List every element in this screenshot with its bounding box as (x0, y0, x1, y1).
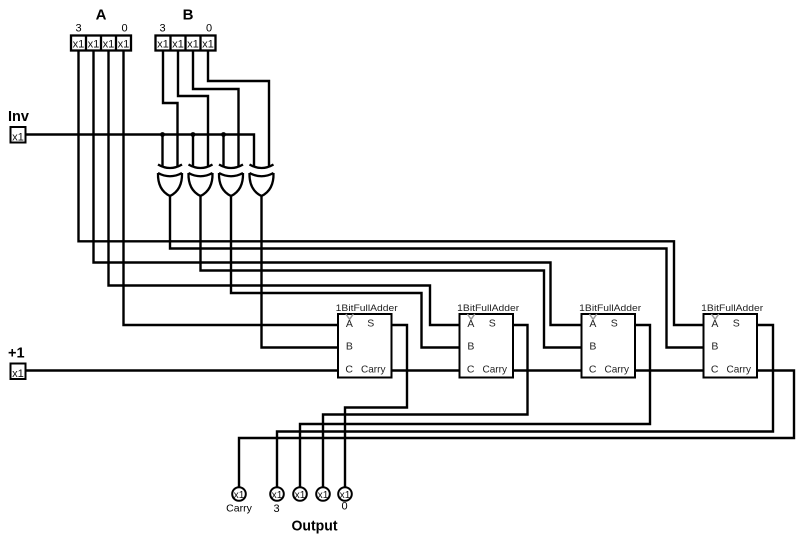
svg-text:1BitFullAdder: 1BitFullAdder (701, 303, 763, 314)
svg-text:A: A (96, 7, 107, 24)
svg-text:3: 3 (273, 503, 279, 515)
input pin group A (4 pin squares) (71, 36, 131, 51)
svg-text:x1: x1 (202, 39, 214, 51)
svg-text:0: 0 (206, 23, 212, 35)
wire U4 S to output pin 3 (277, 325, 773, 488)
svg-text:C: C (345, 363, 353, 375)
xor gate X2 (188, 165, 212, 197)
svg-text:+1: +1 (8, 346, 25, 362)
svg-text:B: B (346, 341, 353, 353)
svg-text:x1: x1 (318, 490, 329, 501)
svg-text:Output: Output (292, 518, 338, 535)
wire XOR X3 out to U2 pin B (231, 195, 460, 348)
wire U2 S to output pin 1 (323, 325, 528, 488)
output pin 3 (270, 487, 284, 501)
svg-text:x1: x1 (12, 368, 24, 380)
svg-text:Carry: Carry (483, 363, 508, 375)
subcircuit U2 1BitFullAdder (460, 314, 514, 378)
svg-text:x1: x1 (295, 490, 306, 501)
xor gate X3 (219, 165, 243, 197)
input pin group B (4 pin squares) (156, 36, 216, 51)
wire XOR X4 out to U1 pin B (262, 195, 339, 348)
svg-text:x1: x1 (340, 490, 351, 501)
svg-text:Inv: Inv (8, 109, 29, 125)
wire A0 to U1 pin A (124, 51, 339, 326)
output pin 0 (338, 487, 352, 501)
wire Inv branch to XOR X2 input A (192, 135, 194, 168)
wire XOR X2 out to U3 pin B (201, 195, 582, 348)
wire U2 Carry to U3 pin C (513, 369, 582, 371)
wire U3 Carry to U4 pin C (635, 369, 704, 371)
xor gate X1 (158, 165, 182, 197)
svg-text:A: A (589, 318, 596, 330)
wire B1 to XOR X3 input B (193, 51, 239, 168)
wire Inv branch to XOR X1 input A (161, 135, 163, 168)
svg-text:x1: x1 (272, 490, 283, 501)
svg-text:B: B (467, 341, 474, 353)
output pin 1 (316, 487, 330, 501)
wire Inv net horizontal and to XOR X4 input A (26, 135, 255, 168)
wire +1 to U1 pin C (26, 369, 339, 371)
svg-text:S: S (611, 317, 618, 329)
svg-text:1BitFullAdder: 1BitFullAdder (336, 303, 398, 314)
junction Inv / X3.A (221, 132, 226, 137)
wire A2 to U3 pin A (94, 51, 582, 326)
svg-text:C: C (589, 363, 597, 375)
wire A3 to U4 pin A (79, 51, 704, 326)
wire U1 S to output pin 0 (345, 325, 407, 488)
svg-text:C: C (711, 363, 719, 375)
input pin +1 (11, 364, 26, 380)
svg-text:S: S (489, 317, 496, 329)
svg-text:x1: x1 (88, 39, 100, 51)
subcircuit U4 1BitFullAdder (704, 314, 758, 378)
svg-text:0: 0 (341, 501, 347, 513)
svg-text:3: 3 (159, 23, 165, 35)
subcircuit U3 1BitFullAdder (582, 314, 636, 378)
wire U4 Carry to output pin Carry (239, 371, 794, 488)
svg-text:x1: x1 (12, 131, 24, 143)
junction Inv / X1.A (160, 132, 165, 137)
svg-text:A: A (711, 318, 718, 330)
svg-text:Carry: Carry (727, 363, 752, 375)
wire XOR X1 out to U4 pin B (170, 195, 704, 348)
output pin Carry (232, 487, 246, 501)
svg-text:B: B (589, 341, 596, 353)
svg-text:Carry: Carry (361, 363, 386, 375)
wire A1 to U2 pin A (109, 51, 460, 326)
svg-text:B: B (711, 341, 718, 353)
svg-text:x1: x1 (73, 39, 85, 51)
svg-text:x1: x1 (103, 39, 115, 51)
wire B0 to XOR X4 input B (208, 51, 269, 168)
svg-text:B: B (183, 7, 194, 24)
svg-text:C: C (467, 363, 475, 375)
svg-text:x1: x1 (187, 39, 199, 51)
svg-text:0: 0 (121, 23, 127, 35)
svg-text:S: S (367, 317, 374, 329)
junction Inv / X2.A (191, 132, 196, 137)
svg-text:x1: x1 (157, 39, 169, 51)
svg-text:1BitFullAdder: 1BitFullAdder (579, 303, 641, 314)
svg-text:Carry: Carry (605, 363, 630, 375)
svg-text:x1: x1 (172, 39, 184, 51)
svg-text:Carry: Carry (226, 503, 252, 515)
svg-text:A: A (467, 318, 474, 330)
wire U1 Carry to U2 pin C (392, 369, 460, 371)
output pin 2 (293, 487, 307, 501)
wire Inv branch to XOR X3 input A (222, 135, 224, 168)
wire B3 to XOR X1 input B (163, 51, 178, 168)
xor gate X4 (249, 165, 273, 197)
svg-text:x1: x1 (118, 39, 130, 51)
wire B2 to XOR X2 input B (178, 51, 208, 168)
wire U3 S to output pin 2 (300, 325, 650, 488)
svg-text:3: 3 (75, 23, 81, 35)
svg-text:A: A (346, 318, 353, 330)
svg-text:1BitFullAdder: 1BitFullAdder (457, 303, 519, 314)
subcircuit U1 1BitFullAdder (338, 314, 392, 378)
input pin Inv (11, 127, 26, 143)
svg-text:S: S (733, 317, 740, 329)
svg-text:x1: x1 (234, 490, 245, 501)
